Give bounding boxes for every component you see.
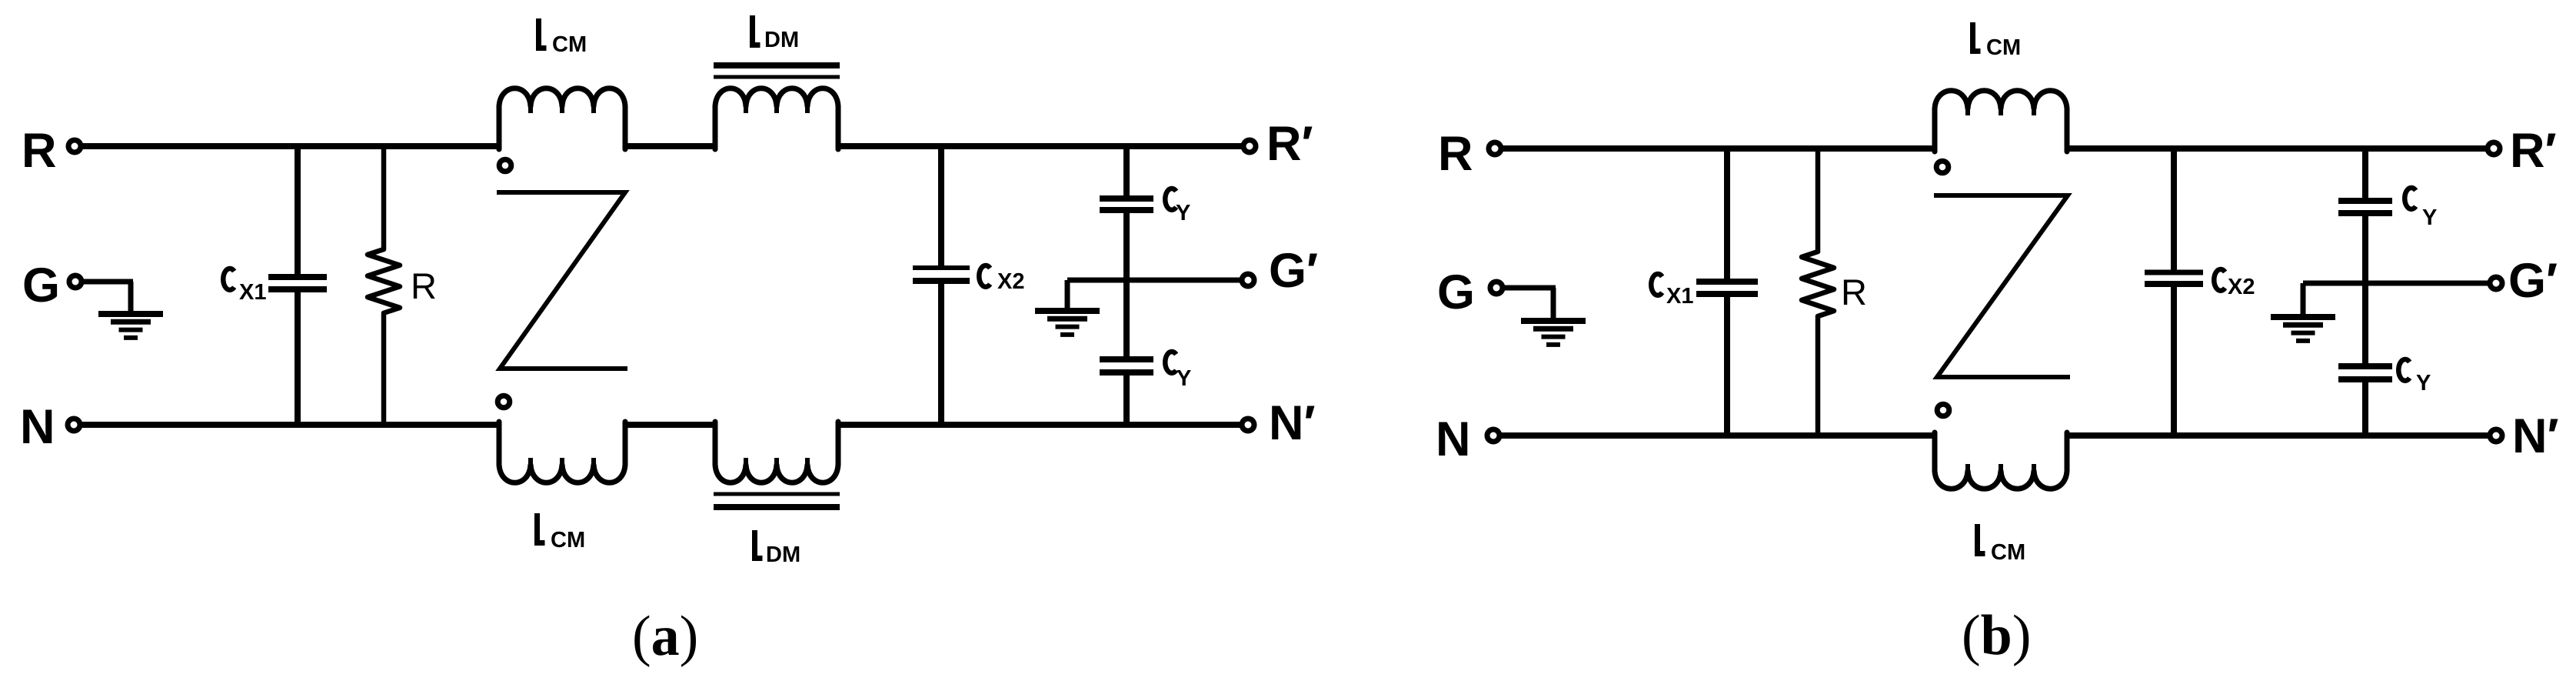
label LCM top (b) [1973,22,2022,60]
label CY top (a) [1165,189,1190,225]
inductor LCM top (a) [499,88,625,149]
label CX1 (b) [1651,274,1693,309]
svg-text:Y: Y [1176,201,1190,225]
terminal R-prime (a) [1243,140,1256,152]
terminal G-prime (b) [2490,277,2502,289]
capacitor CX1 (a) [268,146,327,425]
terminal R (a) [68,140,81,152]
ground G (b) [1521,288,1586,345]
wire R input (b) [1503,145,1937,152]
wire R input (a) [82,143,501,149]
svg-text:CM: CM [551,528,585,552]
wire G-prime (a) [1067,278,1241,283]
svg-text:CM: CM [552,32,587,57]
terminal R-prime (b) [2488,142,2500,155]
common-mode choke core Z (a) [497,192,627,369]
wire bottom middle (a) [623,422,717,428]
svg-text:Y: Y [1177,366,1191,391]
svg-text:CM: CM [1986,35,2021,60]
phase dot LCM top (b) [1936,161,1949,173]
terminal G (a) [69,275,82,288]
ground G-prime (a) [1035,280,1100,335]
label CY top (b) [2405,188,2437,230]
inductor LCM bottom (b) [1935,432,2067,489]
capacitor CX2 (b) [2145,149,2203,436]
svg-text:Y: Y [2422,205,2437,230]
resistor R (b) [1802,149,1834,436]
core lines LDM bottom (a) [714,494,840,507]
terminal G (b) [1490,282,1503,294]
svg-text:G′: G′ [1269,244,1318,298]
label LCM bottom (b) [1978,524,2026,565]
label CX1 (a) [223,269,266,305]
terminal G-prime (a) [1242,274,1254,286]
svg-text:R: R [411,265,437,306]
capacitor CY bottom (b) [2338,283,2392,436]
terminal N (a) [68,419,80,431]
terminal N-prime (b) [2490,429,2502,442]
wire G to ground (a) [83,279,133,285]
capacitor CY top (a) [1100,146,1153,280]
label LDM bottom (a) [755,530,801,567]
capacitor CY bottom (a) [1100,280,1153,425]
wire bottom right (b) [2065,432,2489,439]
svg-text:N: N [20,400,55,454]
wire top right (b) [2065,145,2488,152]
phase dot LCM top (a) [499,159,511,172]
svg-text:R′: R′ [2510,124,2557,178]
label CY bottom (b) [2398,359,2431,396]
svg-text:CM: CM [1991,540,2025,565]
ground G (a) [98,282,163,338]
svg-text:R′: R′ [1266,117,1313,171]
wire top middle (a) [623,143,717,149]
svg-text:X2: X2 [997,269,1024,294]
label CY bottom (a) [1165,352,1191,391]
wire G-prime (b) [2303,281,2489,286]
svg-text:N′: N′ [1269,396,1316,450]
svg-text:Y: Y [2416,371,2431,396]
svg-text:X1: X1 [239,280,266,305]
label LCM top (a) [539,18,587,57]
svg-text:X1: X1 [1666,284,1693,309]
inductor LDM bottom (a) [715,422,838,482]
wire N input (b) [1501,432,1937,439]
terminal N (b) [1487,429,1499,442]
svg-text:N′: N′ [2512,409,2559,463]
phase dot LCM bottom (a) [498,396,510,408]
resistor R (a) [368,146,400,425]
svg-text:X2: X2 [2228,275,2255,299]
svg-text:G: G [22,259,60,312]
wire G to ground (b) [1504,285,1556,291]
svg-text:G′: G′ [2508,254,2558,308]
terminal R (b) [1489,142,1501,155]
terminal N-prime (a) [1242,419,1254,431]
svg-text:R: R [1841,272,1867,312]
svg-text:DM: DM [766,542,800,567]
svg-text:(a): (a) [632,605,698,668]
capacitor CX2 (a) [913,146,970,425]
label LDM top (a) [753,15,800,52]
capacitor CX1 (b) [1696,149,1758,436]
inductor LCM top (b) [1935,91,2067,152]
common-mode choke core Z (b) [1934,195,2070,377]
core lines LDM top (a) [714,65,840,77]
svg-text:(b): (b) [1962,604,2031,667]
phase dot LCM bottom (b) [1937,404,1949,416]
svg-text:R: R [22,124,57,178]
svg-text:N: N [1436,412,1471,466]
svg-text:R: R [1438,127,1473,181]
wire top right (a) [836,143,1243,149]
ground G-prime (b) [2271,283,2335,341]
svg-text:G: G [1437,265,1475,319]
wire bottom right (a) [836,422,1242,428]
capacitor CY top (b) [2338,149,2392,283]
inductor LCM bottom (a) [499,422,625,482]
inductor LDM top (a) [715,88,838,149]
label CX2 (a) [979,265,1024,294]
label CX2 (b) [2214,269,2255,299]
wire N input (a) [82,422,501,428]
svg-text:DM: DM [764,28,799,52]
label LCM bottom (a) [537,513,586,552]
